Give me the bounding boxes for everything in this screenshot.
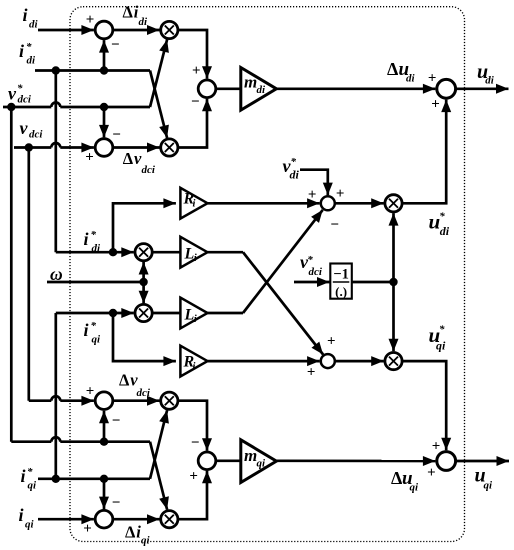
node omega junction	[139, 278, 147, 286]
node i*_qi rail tap	[52, 475, 60, 483]
wire i*_qi cross stub	[104, 477, 150, 480]
svg-text:+: +	[85, 149, 94, 165]
svg-text:−: −	[191, 94, 200, 110]
wire u_qi output	[456, 460, 509, 463]
node R_i lower tap	[109, 309, 117, 317]
svg-text:di: di	[27, 55, 37, 67]
wire i_di input	[38, 29, 94, 32]
svg-text:+: +	[336, 186, 345, 202]
wire v_dci input	[14, 146, 51, 149]
wire X2 to S3	[178, 99, 207, 148]
wire v*_dci to S2	[103, 107, 106, 137]
wire i*_qi input	[38, 477, 104, 480]
svg-text:i: i	[19, 41, 24, 61]
svg-text:+: +	[189, 468, 198, 484]
svg-text:+: +	[327, 333, 336, 349]
sum junction S1 (i_di - i*_di)	[95, 21, 113, 39]
sum junction S8 (Dv bottom)	[95, 392, 113, 410]
svg-text:v: v	[20, 118, 29, 138]
svg-text:Δ: Δ	[125, 523, 136, 542]
wire S6 to X6	[335, 360, 384, 363]
wire i*_di diagonal to X2	[150, 71, 167, 138]
wire X6 to S7	[402, 361, 446, 450]
wire omega input	[47, 281, 144, 284]
svg-text:dci: dci	[18, 94, 32, 106]
svg-text:−: −	[112, 127, 121, 143]
wire i_qi input	[38, 518, 94, 521]
sum junction S9 (i_qi - i*_qi)	[95, 510, 113, 528]
wire i*_di cross stub	[104, 69, 150, 72]
wire node to X6	[392, 282, 395, 351]
svg-text:+: +	[427, 465, 436, 481]
svg-text:qi: qi	[92, 334, 102, 346]
svg-text:qi: qi	[25, 519, 35, 531]
wire v*_di to S5	[300, 170, 328, 195]
wire X7 to S10	[178, 401, 207, 451]
sum junction S2 (Dv)	[95, 139, 113, 157]
wire i*_qi diagonal to X7	[150, 410, 167, 479]
svg-text:+: +	[428, 70, 437, 86]
svg-text:i: i	[19, 505, 24, 525]
sum junction S6 (u*_qi)	[321, 354, 335, 368]
sum junction S4 (u_di out)	[437, 79, 456, 98]
wire S10 to m_qi	[216, 459, 241, 462]
wire i*_qi rail to X4	[56, 312, 134, 315]
svg-text:dci: dci	[142, 164, 156, 176]
multiplier X2 (Dv x i*)	[161, 139, 178, 156]
gain block L_i upper	[180, 237, 207, 268]
svg-text:*: *	[91, 320, 97, 332]
block -1/(.)	[330, 264, 352, 299]
svg-text:dci: dci	[29, 129, 43, 141]
wire S9 to X8	[113, 518, 160, 521]
svg-text:*: *	[439, 324, 445, 336]
wire L_i lower to S5 diagonal	[208, 312, 244, 315]
svg-text:+: +	[432, 438, 441, 454]
svg-text:di: di	[257, 84, 267, 96]
multiplier X7 (Dv x i*_qi)	[161, 392, 178, 409]
svg-text:Δ: Δ	[387, 59, 398, 79]
svg-text:v: v	[8, 84, 17, 104]
svg-text:di: di	[485, 74, 495, 86]
wire v* cross stub bottom	[104, 440, 150, 443]
wire m_di to S4	[276, 87, 435, 90]
svg-text:+: +	[192, 63, 201, 79]
multiplier X5	[385, 195, 402, 212]
svg-text:−: −	[111, 37, 120, 53]
sum junction S7 (u_qi out)	[437, 452, 456, 471]
svg-text:i: i	[193, 199, 196, 210]
svg-text:i: i	[84, 229, 89, 249]
sum junction S5 (u*_di)	[321, 196, 335, 210]
wire X4 to L_i lower	[152, 312, 180, 315]
wire tap to R_i lower	[113, 313, 176, 361]
wire node to X5	[392, 213, 395, 282]
svg-text:qi: qi	[436, 338, 446, 352]
wire omega to X4	[142, 282, 145, 303]
gain block m_qi	[241, 440, 277, 483]
multiplier X4 (omega x i*_qi)	[135, 304, 152, 321]
wire S2 to X2	[113, 146, 160, 149]
wire R_i lower to S6	[208, 360, 320, 363]
wire m_qi to S7	[276, 459, 435, 462]
multiplier X1 (Di x v*)	[161, 21, 178, 38]
svg-text:−: −	[112, 413, 121, 429]
dashed subsystem border	[70, 7, 465, 542]
gain block L_i lower	[180, 298, 207, 329]
svg-text:i: i	[193, 361, 196, 372]
svg-text:−1: −1	[333, 267, 349, 283]
svg-text:i: i	[84, 320, 89, 340]
svg-text:i: i	[21, 466, 26, 486]
wire v*_dci input	[3, 106, 51, 109]
svg-text:i: i	[194, 253, 197, 264]
wire v*_dci rail bottom	[11, 440, 51, 443]
svg-text:*: *	[26, 41, 32, 53]
svg-text:−: −	[330, 217, 339, 233]
wire tap to R_i upper	[113, 203, 176, 252]
svg-text:−: −	[191, 435, 200, 451]
wire i*_qi to S9	[103, 479, 106, 509]
svg-text:*: *	[291, 156, 297, 168]
svg-text:*: *	[439, 211, 445, 223]
svg-text:di: di	[29, 19, 39, 31]
svg-text:Δ: Δ	[123, 149, 134, 168]
wire X1 to S3	[178, 30, 207, 79]
wire omega to X3	[142, 262, 145, 282]
svg-text:m: m	[244, 72, 257, 91]
wire R_i upper to S5	[208, 202, 320, 205]
svg-text:+: +	[308, 187, 317, 203]
gain block R_i lower	[180, 346, 207, 377]
node v*_dci junction	[100, 103, 108, 111]
wire u_di output	[456, 87, 509, 90]
wire v_dci rail down	[27, 148, 30, 401]
wire X8 to S10	[178, 471, 207, 519]
svg-text:−: −	[112, 495, 121, 511]
svg-text:i: i	[23, 5, 28, 25]
wire L_i upper to S6 diagonal	[208, 251, 244, 254]
svg-text:di: di	[139, 16, 149, 28]
svg-text:qi: qi	[410, 482, 420, 494]
svg-text:(.): (.)	[335, 284, 347, 299]
svg-text:+: +	[86, 383, 95, 399]
svg-text:di: di	[440, 224, 450, 238]
svg-text:+: +	[307, 365, 316, 381]
sum junction S10 (pre m_qi)	[198, 452, 216, 470]
svg-text:Δ: Δ	[119, 370, 130, 389]
wire X5 to S4	[402, 100, 446, 204]
wire v*_dci rail down	[10, 107, 13, 442]
svg-text:+: +	[86, 12, 95, 28]
multiplier X3 (omega x i*_di)	[135, 244, 152, 261]
node i*_di junction	[100, 66, 108, 74]
wire S5 to X5	[335, 202, 384, 205]
wire S8 to X7	[113, 399, 160, 402]
wire v*_dci diagonal to X1	[150, 40, 167, 107]
svg-text:di: di	[92, 243, 102, 255]
wire reciprocal to node	[352, 281, 394, 284]
node v* bottom junction	[100, 438, 108, 446]
wire i*_di to S1	[103, 40, 106, 70]
node i*_di rail tap	[52, 66, 60, 74]
svg-text:Δ: Δ	[391, 468, 402, 488]
wire i*_di input	[35, 69, 104, 72]
sum junction S3 (pre m_di)	[198, 80, 216, 98]
wire v_dci rail bottom	[29, 399, 52, 402]
svg-text:*: *	[27, 466, 33, 478]
wire i*_di rail to X3	[56, 251, 134, 254]
wire X3 to L_i upper	[152, 251, 180, 254]
multiplier X6	[385, 353, 402, 370]
svg-text:di: di	[290, 168, 300, 182]
node R_i upper tap	[109, 248, 117, 256]
svg-text:qi: qi	[257, 458, 267, 470]
svg-text:*: *	[307, 254, 313, 266]
multiplier X8 (Di x v*)	[161, 511, 178, 528]
svg-text:dci: dci	[309, 266, 323, 278]
svg-text:di: di	[406, 73, 416, 85]
wire S3 to m_di	[216, 87, 241, 90]
node i*_qi junction	[100, 475, 108, 483]
svg-text:+: +	[83, 521, 92, 537]
wire i*_qi rail up	[54, 313, 57, 479]
svg-text:Δ: Δ	[123, 3, 134, 22]
svg-text:qi: qi	[28, 480, 38, 492]
node reciprocal junction	[389, 278, 397, 286]
wire S1 to X1	[113, 29, 160, 32]
wire v* diagonal to X8	[150, 442, 167, 510]
node v*_dci left	[7, 103, 15, 111]
svg-text:qi: qi	[141, 535, 151, 547]
svg-text:+: +	[431, 97, 440, 113]
wire v* to S8	[103, 411, 106, 442]
svg-text:*: *	[91, 229, 97, 241]
svg-text:qi: qi	[484, 480, 494, 492]
gain block R_i upper	[180, 188, 207, 219]
wire into reciprocal block	[294, 281, 330, 284]
svg-text:m: m	[244, 446, 257, 465]
wire i*_di rail down	[54, 71, 57, 253]
node v_dci left	[25, 143, 33, 151]
svg-text:i: i	[194, 314, 197, 325]
wire v*_dci cross stub	[104, 106, 150, 109]
gain block m_di	[241, 68, 277, 111]
